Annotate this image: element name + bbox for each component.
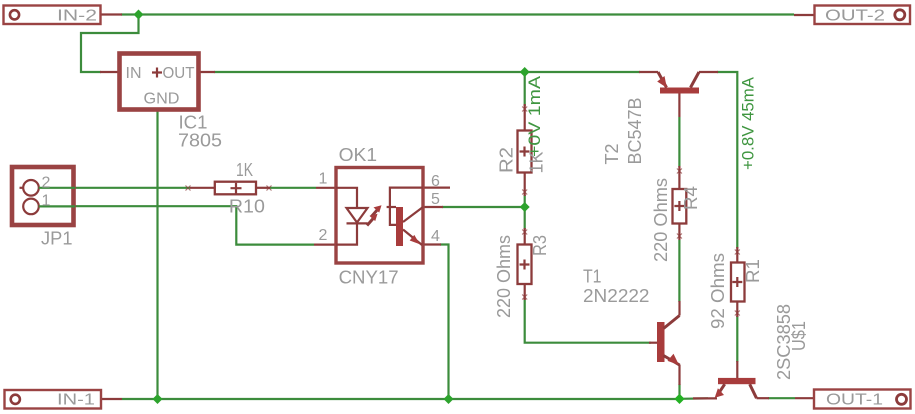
value 220 Ohms (R3) [494,235,514,318]
svg-text:2SC3858: 2SC3858 [774,304,794,380]
label R1 [743,259,763,283]
pin R4 top [677,166,682,189]
pin T1 emitter [678,365,680,386]
pin T1 base [649,342,658,344]
pin R1 bottom [735,302,740,318]
wire node base down to R3 [524,207,526,229]
svg-text:R2: R2 [497,147,517,173]
label T1 [583,267,602,287]
pin label JP1 1 [42,193,51,210]
svg-text:OUT-1: OUT-1 [826,392,883,409]
svg-text:IN: IN [126,65,142,82]
resistor R10 [215,182,256,195]
resistor R1 [731,263,745,302]
pin OK1 6 [423,187,450,189]
pin U$1 base [736,361,738,378]
label R4 [681,186,701,210]
label JP1 [41,229,73,249]
pin label JP1 2 [42,175,51,192]
connector IN-1 [5,390,102,409]
pin OK1 1 [316,187,336,189]
connector OUT-1 [814,390,911,409]
svg-text:T1: T1 [583,267,602,287]
pin R2 bottom [522,173,527,197]
pin IC1 OUT [198,71,215,73]
net label +0.8V 45mA [739,76,758,170]
pin R1 top [735,247,740,263]
wire R1 bottom to U$1 base [736,316,738,362]
value CNY17 [339,268,399,288]
svg-text:1: 1 [319,171,328,188]
optocoupler OK1 CNY17 [336,168,423,264]
resistor R3 [518,245,532,285]
wire U$1 collector to OUT-1 [768,397,795,399]
pin R3 top [522,228,527,245]
pin T2 emitter [639,71,658,73]
svg-text:220 Ohms: 220 Ohms [494,235,514,318]
wire U$1 emitter to ground junction [680,397,708,400]
pin label OK1 1 [319,171,328,188]
wire ground rail IN-1 to U$1 emitter [122,398,680,400]
svg-text:IN-1: IN-1 [57,392,95,409]
connector IN-2 [4,6,101,25]
wire OK1 pin4 to ground rail [440,245,449,400]
svg-text:6: 6 [431,173,440,190]
label U$1 [789,321,809,351]
label R2 [497,147,517,173]
wire R4 top to T2 base [678,117,680,167]
svg-text:2: 2 [319,227,328,244]
wire +5V rail IC1 OUT to T2 [214,71,640,73]
svg-text:5: 5 [431,191,440,208]
svg-text:OK1: OK1 [339,145,378,165]
svg-text:1K: 1K [236,160,253,180]
junction ground rail at T1 emitter [674,394,684,404]
junction +5V rail at R2 [520,67,530,77]
svg-text:OUT: OUT [163,65,195,82]
transistor T1 2N2222 [657,316,680,366]
value 92 Ohms [708,253,728,329]
pin R10 left [186,186,216,191]
pin OK1 2 [314,244,336,246]
value 2SC3858 [774,304,794,380]
svg-text:+0V 1mA: +0V 1mA [525,75,544,157]
pin label OK1 2 [319,227,328,244]
svg-text:GND: GND [144,91,180,108]
label OK1 [339,145,378,165]
svg-text:92 Ohms: 92 Ohms [708,253,728,329]
wire R10 to OK1 pin1 [270,187,316,189]
pin IN-1 right [101,398,122,400]
transistor U$1 2SC3858 [715,378,757,398]
svg-text:4: 4 [431,228,440,245]
svg-text:220 Ohms: 220 Ohms [651,178,671,262]
resistor R4 [673,189,687,224]
wire +5V junction down to R2 [524,72,526,106]
pin R3 bottom [522,284,527,300]
svg-text:OUT-2: OUT-2 [825,8,885,25]
pin R4 bottom [677,224,682,241]
svg-text:R1: R1 [743,259,763,283]
pin label OK1 4 [431,228,440,245]
svg-text:CNY17: CNY17 [339,268,399,288]
value 1K (R2) [527,152,547,174]
pin T1 collector [678,301,680,316]
wire OK1 pin5 to node base [442,206,525,208]
junction ground rail at IC1 GND [153,394,163,404]
value 1K (R10) [236,160,253,180]
wire R3 bottom to T1 base [525,299,651,343]
connector OUT-2 [815,6,911,25]
value 2N2222 [583,286,650,306]
svg-text:2N2222: 2N2222 [583,286,650,306]
net label +0V 1mA [525,75,544,157]
svg-text:+0.8V 45mA: +0.8V 45mA [739,76,758,170]
pin R2 top [522,104,527,131]
wire T2 collector to R1 top [717,72,737,248]
pin T2 base [678,94,680,118]
svg-text:1: 1 [42,193,51,210]
wire top net IN-2 to OUT-2 [121,13,794,15]
svg-text:R10: R10 [229,197,265,217]
svg-text:IN-2: IN-2 [57,8,97,25]
pin IN-2 right [101,13,122,15]
wire T1 emitter to ground junction [678,384,680,399]
connector JP1 [12,167,75,225]
wire branch junction to IC1 IN [81,15,139,73]
pin U$1 collector [757,397,770,399]
svg-text:R3: R3 [530,235,550,256]
pin OK1 4 [423,243,441,245]
value 7805 [178,131,222,151]
pin label OK1 5 [431,191,440,208]
label T2 [602,144,622,165]
label IC1 [179,113,208,133]
pin U$1 emitter [693,397,717,399]
svg-text:R4: R4 [681,186,701,210]
pin OUT-1 left [795,397,815,399]
wire IC1 GND to ground rail [156,109,158,399]
svg-text:BC547B: BC547B [625,98,645,165]
svg-text:IC1: IC1 [179,113,208,133]
value BC547B [625,98,645,165]
value 220 Ohms (R4) [651,178,671,262]
svg-text:JP1: JP1 [41,229,73,249]
wire R2 bottom to node base [524,195,526,207]
pin T2 collector [699,71,718,73]
wire T1 collector to R4 bottom [678,240,680,302]
pin IC1 IN [100,71,120,73]
junction ground rail at OK1 pin4 [444,394,454,404]
svg-text:2: 2 [42,175,51,192]
wire JP1 pin2 to R10 [39,187,190,189]
resistor R2 [518,131,532,173]
junction top net at IN-2 [134,10,144,20]
pin OUT-2 left [794,14,815,16]
pin label OK1 6 [431,173,440,190]
label R3 [530,235,550,256]
transistor T2 BC547B [657,72,699,94]
wire JP1 pin1 to OK1 pin2 [39,206,314,244]
pin OK1 5 [423,206,443,208]
svg-text:7805: 7805 [178,131,222,151]
label R10 [229,197,265,217]
pin R10 right [256,186,272,191]
junction node base at R3 [520,202,530,212]
voltage regulator IC1 7805 [120,54,199,110]
svg-text:T2: T2 [602,144,622,165]
